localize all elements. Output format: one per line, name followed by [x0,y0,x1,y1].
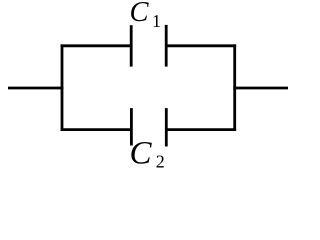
svg-text:C: C [130,0,150,28]
svg-text:1: 1 [152,11,161,31]
svg-text:2: 2 [156,152,165,172]
svg-text:C: C [130,136,153,172]
